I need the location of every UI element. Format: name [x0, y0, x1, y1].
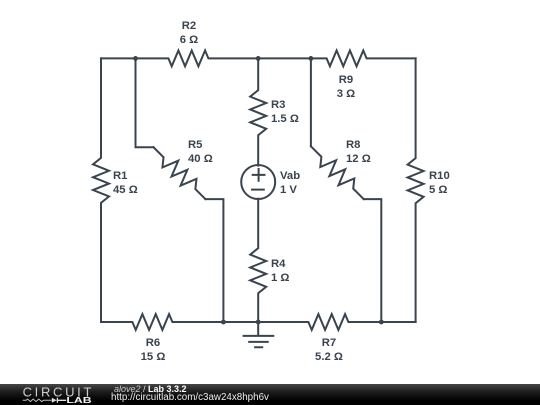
junction node b (R3 top)	[256, 56, 261, 61]
CircuitLab logo	[0, 384, 110, 405]
ground	[244, 322, 274, 347]
minus sign	[252, 189, 264, 191]
wire	[101, 57, 136, 59]
label R10	[429, 169, 450, 197]
resistor R8	[311, 146, 364, 199]
junction R8 bottom	[379, 320, 384, 325]
label R6	[141, 336, 166, 364]
footer title text	[114, 385, 187, 394]
wire	[136, 58, 154, 147]
label Vab	[280, 169, 300, 197]
label R2	[180, 19, 198, 47]
wire	[364, 199, 382, 322]
resistor R2	[136, 51, 259, 67]
wire	[381, 321, 415, 323]
resistor R7	[258, 314, 381, 330]
junction node a (R5 tap)	[133, 56, 138, 61]
resistor R3	[250, 58, 266, 165]
resistor R9	[311, 51, 416, 67]
junction R5 bottom	[221, 320, 226, 325]
junction ground node	[256, 320, 261, 325]
label R5	[188, 138, 213, 166]
wire	[205, 199, 223, 322]
label R9	[336, 73, 354, 101]
logo resistor glyph	[23, 399, 52, 402]
resistor R1	[93, 58, 109, 322]
junction node c (R8 tap)	[309, 56, 314, 61]
logo diode cathode bar and wire	[57, 398, 67, 403]
wire	[310, 58, 312, 146]
resistor R4	[250, 199, 266, 322]
logo diode glyph	[52, 398, 57, 403]
wire	[258, 57, 311, 59]
footer bar	[0, 384, 540, 405]
label R1	[113, 169, 138, 197]
plus sign	[253, 169, 265, 181]
label R7	[315, 336, 343, 364]
resistor R6	[101, 314, 223, 330]
label R3	[271, 98, 299, 126]
label R4	[271, 257, 289, 285]
svg-text:LAB: LAB	[66, 395, 91, 405]
resistor R5	[154, 147, 206, 199]
voltage source Vab	[241, 165, 275, 199]
resistor R10	[408, 58, 424, 322]
footer url text	[111, 393, 269, 403]
label R8	[346, 138, 371, 166]
wire	[223, 321, 258, 323]
